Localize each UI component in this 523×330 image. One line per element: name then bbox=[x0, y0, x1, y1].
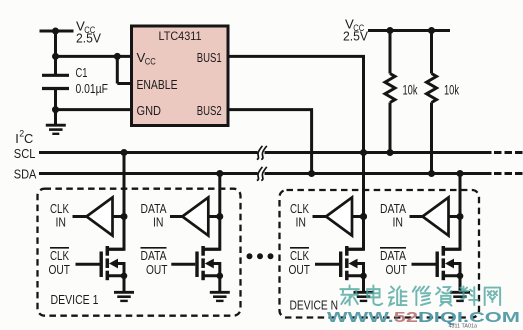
svg-text:OUT: OUT bbox=[146, 262, 168, 277]
svg-text:10k: 10k bbox=[403, 83, 418, 98]
svg-text:0.01µF: 0.01µF bbox=[76, 81, 109, 96]
svg-text:IN: IN bbox=[296, 215, 307, 230]
svg-text:4311 TA01a: 4311 TA01a bbox=[449, 324, 478, 330]
svg-text:IN: IN bbox=[56, 215, 67, 230]
svg-text:10k: 10k bbox=[444, 83, 459, 98]
svg-text:IN: IN bbox=[153, 215, 164, 230]
svg-text:WWW.52DIQI.COM: WWW.52DIQI.COM bbox=[327, 309, 520, 326]
svg-text:OUT: OUT bbox=[386, 262, 408, 277]
svg-text:DATA: DATA bbox=[141, 248, 167, 263]
svg-text:DEVICE 1: DEVICE 1 bbox=[51, 292, 99, 307]
svg-text:OUT: OUT bbox=[49, 262, 71, 277]
svg-text:C1: C1 bbox=[76, 65, 88, 80]
svg-text:BUS1: BUS1 bbox=[197, 50, 222, 65]
svg-text:CLK: CLK bbox=[50, 248, 69, 263]
svg-text:SCL: SCL bbox=[14, 147, 36, 161]
svg-text:LTC4311: LTC4311 bbox=[159, 29, 202, 43]
svg-text:2.5V: 2.5V bbox=[343, 29, 368, 44]
svg-text:SDA: SDA bbox=[14, 168, 37, 182]
svg-text:CC: CC bbox=[145, 56, 156, 66]
svg-text:ENABLE: ENABLE bbox=[137, 77, 178, 92]
svg-text:BUS2: BUS2 bbox=[197, 103, 222, 118]
svg-text:OUT: OUT bbox=[289, 262, 311, 277]
svg-text:CLK: CLK bbox=[290, 248, 309, 263]
svg-text:2.5V: 2.5V bbox=[76, 31, 101, 46]
svg-text:IN: IN bbox=[393, 215, 404, 230]
svg-text:DATA: DATA bbox=[380, 248, 406, 263]
svg-text:C: C bbox=[24, 131, 33, 146]
svg-text:GND: GND bbox=[137, 103, 162, 118]
